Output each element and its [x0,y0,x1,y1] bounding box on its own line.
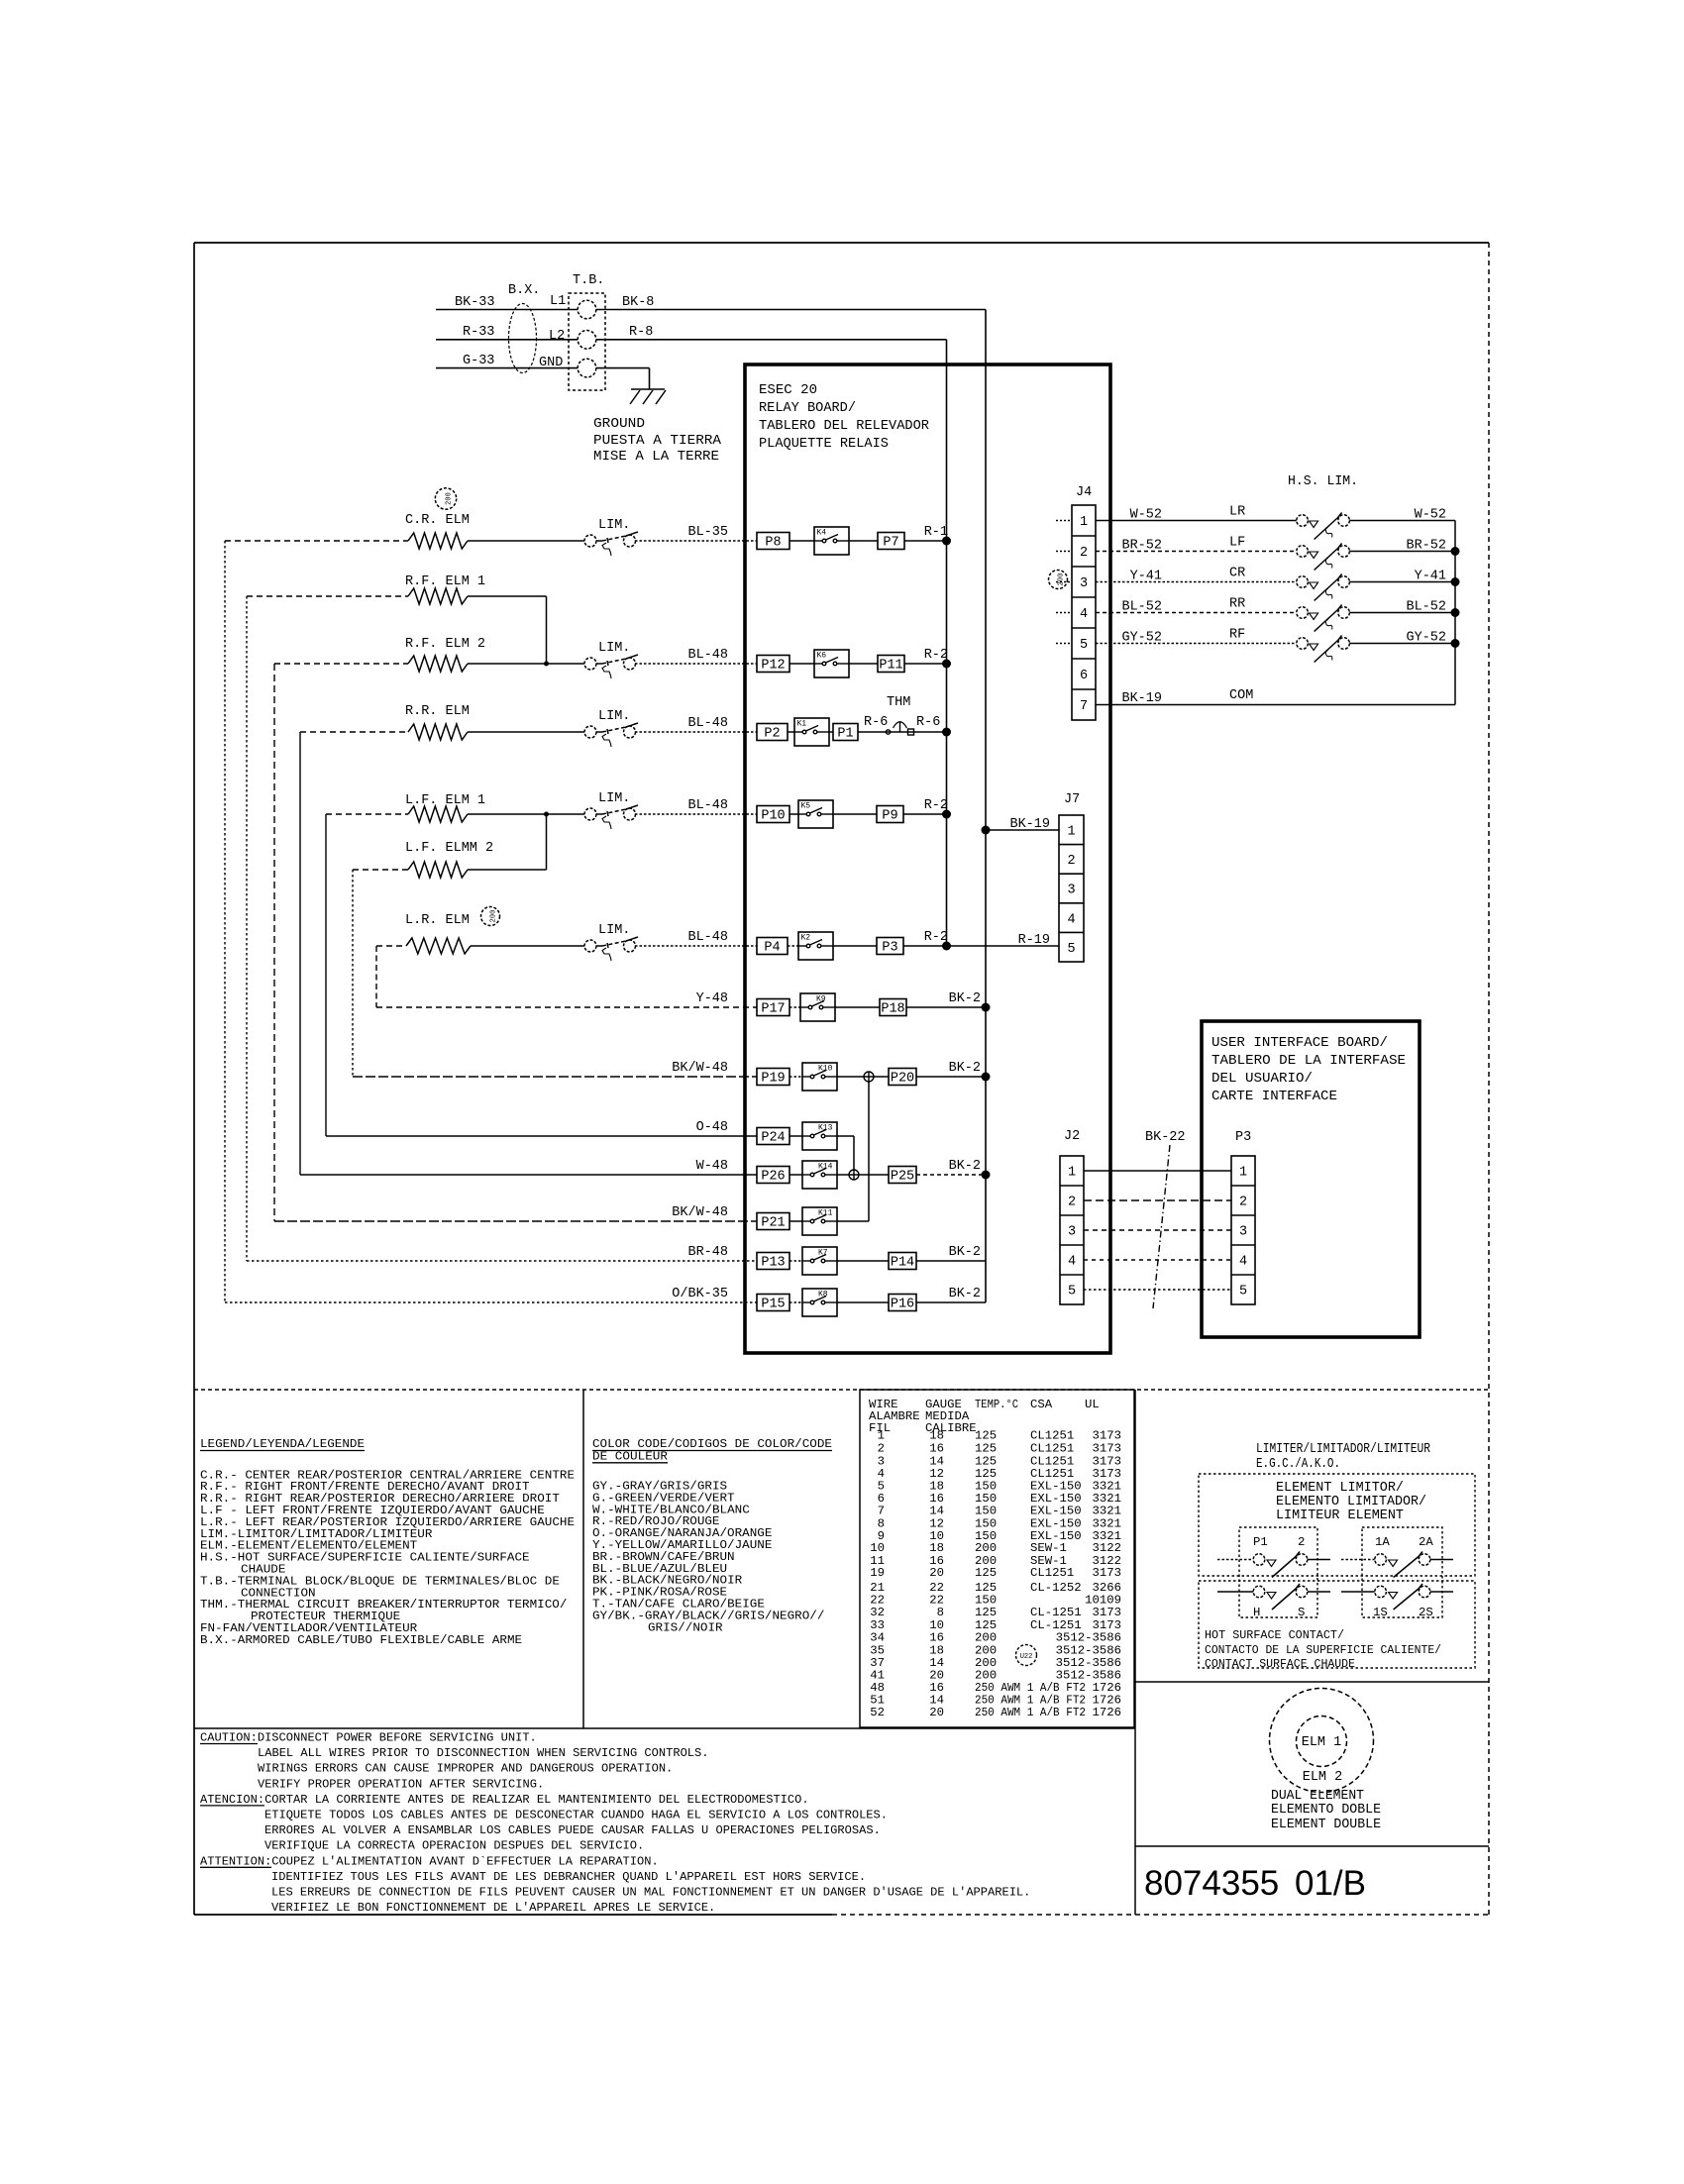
wire P3 to J7 pin5 R-19 [903,945,1059,947]
svg-text:5: 5 [1068,1285,1076,1300]
connector P14 [889,1253,916,1270]
svg-text:250 AWM 1 A/B FT2: 250 AWM 1 A/B FT2 [975,1706,1086,1719]
svg-text:1: 1 [1239,1166,1247,1181]
wire R-33 to L2 [436,339,578,341]
svg-text:BL-48: BL-48 [687,930,728,945]
svg-text:125: 125 [975,1454,997,1468]
svg-text:R.F. ELM 1: R.F. ELM 1 [405,574,485,589]
hot surface switch 1S-2S [1375,1586,1387,1598]
wire BK-33 to L1 [436,309,578,311]
relay K4 [814,527,849,555]
junction R-2 row3 [942,660,951,669]
svg-text:125: 125 [975,1429,997,1443]
stub J4 pin left [1056,551,1072,553]
wire G-33 to GND [436,367,578,369]
svg-text:3173: 3173 [1092,1606,1121,1619]
wire J4 pin5 to RF limit switch [1096,643,1297,645]
ground symbol [631,388,665,390]
wire riser C.R. elm to P15 row [224,541,226,1302]
svg-text:LIM.: LIM. [598,709,630,724]
relay K6 [814,650,849,677]
junction right bus Y-41 [1451,577,1460,586]
svg-text:3512-3586: 3512-3586 [1056,1631,1121,1645]
svg-text:K6: K6 [817,652,827,661]
junction BK-2 row11 [982,1171,991,1180]
svg-text:LR: LR [1229,505,1245,520]
svg-text:BR-48: BR-48 [687,1245,728,1260]
svg-text:BK-33: BK-33 [455,295,495,310]
limiter switch LIM row7 [584,940,596,952]
wire J2 pin5 to P3 pin5 [1084,1289,1231,1291]
wire BK/W-48 row9 [353,1076,757,1078]
border frame left [193,243,195,1915]
svg-text:PLAQUETTE RELAIS: PLAQUETTE RELAIS [759,437,889,452]
svg-text:1: 1 [1068,1166,1076,1181]
svg-text:P18: P18 [881,1002,904,1017]
wire P16 to BK bus [916,1301,986,1303]
terminal L1 [578,300,596,319]
wire BK-19 to J7 pin1 [986,829,1059,831]
wire K7-P14 [837,1260,889,1262]
wire switch RF to right bus [1349,643,1455,645]
svg-text:P21: P21 [761,1216,785,1231]
hot surface switch H-S [1253,1586,1265,1598]
wire R-8 from L2 to R bus [596,339,947,341]
connector P25 [889,1167,916,1184]
wire P10-K5 [789,813,798,815]
svg-text:LIM.: LIM. [598,641,630,656]
terminal L2 [578,331,596,350]
svg-text:CARTE INTERFACE: CARTE INTERFACE [1211,1090,1337,1104]
svg-text:LABEL ALL WIRES PRIOR TO DISCO: LABEL ALL WIRES PRIOR TO DISCONNECTION W… [258,1746,709,1760]
wire J2 pin2 to P3 pin2 [1084,1199,1231,1201]
svg-text:R-8: R-8 [629,325,653,340]
relay K10 [802,1063,837,1091]
wire K10 to junction [837,1076,889,1078]
wire J2 pin4 to P3 pin4 [1084,1259,1231,1261]
thermal breaker THM [886,730,890,734]
wire R.F. elm2 to LIM [468,663,584,665]
wire J4 pin1 to LR limit switch [1096,520,1297,522]
svg-text:RF: RF [1229,628,1245,643]
wire P14 to BK bus [916,1260,986,1262]
divider legend bottom / caution top [194,1727,1135,1729]
svg-text:TABLERO DE LA INTERFASE: TABLERO DE LA INTERFASE [1211,1054,1406,1069]
border frame top [194,242,1489,244]
svg-text:ELM 1: ELM 1 [1302,1735,1342,1750]
connector P17 [757,999,789,1016]
svg-text:IDENTIFIEZ TOUS LES FILS AVANT: IDENTIFIEZ TOUS LES FILS AVANT DE LES DE… [271,1870,866,1884]
relay K7 [802,1247,837,1275]
stub J4 pin left [1056,520,1072,522]
wire R.F. elm2 left [274,663,408,665]
svg-text:1: 1 [878,1429,885,1443]
junction BK-19 bus [982,826,991,835]
svg-text:P3: P3 [1235,1130,1251,1145]
wire P12-K6 [789,663,814,665]
svg-text:ELEMENTO LIMITADOR/: ELEMENTO LIMITADOR/ [1276,1495,1426,1509]
connector P9 [877,806,903,823]
svg-text:4: 4 [1239,1255,1247,1270]
part number box top [1135,1845,1489,1847]
connector P13 [757,1253,789,1270]
svg-text:LIM.: LIM. [598,518,630,533]
svg-text:LIM.: LIM. [598,923,630,938]
wire J4 pin3 to CR limit switch [1096,581,1297,583]
svg-text:VERIFIEZ LE BON FONCTIONNEMENT: VERIFIEZ LE BON FONCTIONNEMENT DE L'APPA… [271,1901,715,1915]
svg-text:K10: K10 [818,1065,833,1074]
svg-text:16: 16 [929,1441,944,1455]
hot surface limit switch CR [1297,576,1309,588]
svg-text:BK-8: BK-8 [622,295,654,310]
svg-text:GY-52: GY-52 [1121,631,1162,646]
underline ATTENTION [200,1866,271,1868]
svg-text:14: 14 [929,1504,944,1517]
limiter switch LIM row1 [584,535,596,547]
relay K5 [798,800,833,828]
wire J4 pin2 to LF limit switch [1096,551,1297,553]
svg-text:GROUND: GROUND [593,417,645,432]
svg-text:P4: P4 [764,941,780,956]
wire K2-P3 [833,945,877,947]
wire L.F. elmm2 right to row5 [468,869,547,871]
svg-text:10: 10 [870,1541,885,1555]
connector J2 [1060,1156,1084,1304]
wire O-48 row10 [326,1135,757,1137]
svg-text:150: 150 [975,1504,997,1517]
svg-text:BK-2: BK-2 [949,1245,981,1260]
wire O/BK-35 row14 [225,1301,757,1303]
underline CAUTION [200,1743,258,1745]
svg-text:P17: P17 [761,1002,785,1017]
svg-text:Y-48: Y-48 [696,991,728,1006]
heater element C.R. ELM [408,533,468,549]
svg-text:W-48: W-48 [696,1159,728,1174]
connector P21 [757,1213,789,1230]
svg-text:LIMITEUR ELEMENT: LIMITEUR ELEMENT [1276,1508,1404,1523]
wire K14 to junction [837,1174,889,1176]
connector P8 [757,533,789,550]
wire P15-K8 [789,1301,802,1303]
svg-text:ETIQUETE TODOS LOS CABLES ANTE: ETIQUETE TODOS LOS CABLES ANTES DE DESCO… [264,1809,888,1822]
junction elmm2 [544,812,549,817]
svg-text:3: 3 [1239,1225,1247,1240]
cable marker BK-22 diagonal [1153,1145,1170,1308]
wire riser L.F. elmm2 to P19 row [352,870,354,1077]
limiter device box left [1239,1527,1317,1617]
svg-text:WIRINGS ERRORS CAN CAUSE IMPRO: WIRINGS ERRORS CAN CAUSE IMPROPER AND DA… [258,1762,673,1776]
svg-text:TABLERO DEL RELEVADOR: TABLERO DEL RELEVADOR [759,419,929,434]
limiter switch LIM row3 [584,658,596,670]
svg-text:CL1251: CL1251 [1030,1454,1074,1468]
heater element R.F. ELM 1 [408,588,468,604]
svg-text:1726: 1726 [1092,1706,1121,1719]
svg-text:K1: K1 [797,720,807,729]
wire BK-8 from L1 to BK bus [596,309,986,311]
svg-text:200: 200 [1057,573,1065,586]
connector J4 [1072,505,1096,720]
svg-text:K5: K5 [801,802,811,811]
svg-text:BK-2: BK-2 [949,991,981,1006]
connector P19 [757,1069,789,1086]
connector P24 [757,1128,789,1145]
wire Y-48 row [376,1006,757,1008]
stub J4 pin left [1056,581,1072,583]
svg-text:CL-1251: CL-1251 [1030,1606,1082,1619]
svg-text:CONTACTO DE LA SUPERFICIE CALI: CONTACTO DE LA SUPERFICIE CALIENTE/ [1205,1643,1441,1657]
svg-text:20: 20 [929,1566,944,1580]
connector P4 [757,938,788,955]
wire riser L.F. elm1 to P24 row [325,814,327,1136]
svg-text:200: 200 [975,1631,997,1645]
svg-text:LES ERREURS DE CONNECTION DE F: LES ERREURS DE CONNECTION DE FILS PEUVEN… [271,1886,1030,1900]
connector P1 [833,724,858,741]
svg-text:VERIFIQUE LA CORRECTA OPERACIO: VERIFIQUE LA CORRECTA OPERACION DESPUES … [264,1839,644,1853]
wire switch LF to right bus [1349,551,1455,553]
svg-text:8074355: 8074355 [1144,1864,1279,1903]
wire P19-K10 [789,1076,802,1078]
divider legend/color code [582,1390,584,1728]
wire R.R. elm to LIM [468,731,584,733]
limiter device box right [1362,1527,1442,1617]
heater element R.F. ELM 2 [408,656,468,672]
svg-text:P11: P11 [879,659,902,674]
svg-text:CSA: CSA [1030,1398,1053,1411]
divider above legend (dashed) [194,1389,1489,1391]
connector P16 [889,1295,916,1311]
svg-text:01/B: 01/B [1295,1864,1366,1903]
svg-text:HOT SURFACE CONTACT/: HOT SURFACE CONTACT/ [1205,1628,1344,1642]
svg-text:LEGEND/LEYENDA/LEGENDE: LEGEND/LEYENDA/LEGENDE [200,1437,365,1451]
svg-text:R-33: R-33 [463,325,494,340]
wire table box [860,1390,1134,1727]
wire LIM to P10 [635,813,757,815]
stub J4 pin left [1056,643,1072,645]
terminal block T.B. [569,293,605,390]
svg-text:S: S [1298,1606,1305,1619]
connector J7 [1059,815,1084,962]
wire LIM to P12 [635,663,757,665]
wire switch RR to right bus [1349,612,1455,614]
svg-text:P14: P14 [891,1256,914,1271]
svg-text:CL1251: CL1251 [1030,1566,1074,1580]
wire LIM to P4 [635,945,757,947]
svg-text:LF: LF [1229,536,1245,551]
wire GND to ground symbol [596,367,650,369]
wire P7 to R bus [904,540,947,542]
svg-text:P8: P8 [765,536,781,551]
svg-text:CL1251: CL1251 [1030,1441,1074,1455]
wire K11 up to row9 junction [837,1220,869,1222]
underline ATENCION [200,1805,264,1807]
relay K1 [794,718,829,746]
wire J4 pin4 to RR limit switch [1096,612,1297,614]
svg-text:DUAL ELEMENT: DUAL ELEMENT [1271,1789,1364,1804]
heater element L.F. ELMM 2 [408,862,468,878]
wire K4-P7 [849,540,878,542]
svg-text:USER INTERFACE BOARD/: USER INTERFACE BOARD/ [1211,1036,1388,1051]
svg-text:CAUTION:DISCONNECT POWER BEFOR: CAUTION:DISCONNECT POWER BEFORE SERVICIN… [200,1731,537,1745]
wire P8-K4 [789,540,814,542]
wire P20 to BK bus [916,1076,986,1078]
wire P2-K1 [788,731,794,733]
connector P26 [757,1167,789,1184]
svg-text:BK-19: BK-19 [1009,817,1050,832]
svg-text:CR: CR [1229,567,1245,581]
wire LIM to P2 [635,731,757,733]
svg-text:B.X.-ARMORED CABLE/TUBO FLEXIB: B.X.-ARMORED CABLE/TUBO FLEXIBLE/CABLE A… [200,1633,522,1647]
svg-text:GY-52: GY-52 [1406,631,1446,646]
wire C.R. elm left [225,540,408,542]
svg-text:52: 52 [870,1706,885,1719]
relay K11 [802,1207,837,1235]
svg-text:6: 6 [1080,669,1088,683]
svg-text:BK-22: BK-22 [1145,1130,1186,1145]
svg-text:1A: 1A [1375,1535,1390,1549]
svg-text:19: 19 [870,1566,885,1580]
svg-text:W-52: W-52 [1415,508,1446,523]
wire riser R.F. elm1 to P13 row [246,596,248,1261]
svg-text:ESEC 20: ESEC 20 [759,383,817,398]
element limitor dashed box [1199,1474,1475,1576]
svg-text:L.F. ELMM 2: L.F. ELMM 2 [405,841,493,856]
svg-text:18: 18 [929,1541,944,1555]
svg-text:K2: K2 [801,934,811,943]
svg-text:P3: P3 [882,941,897,956]
note circle 200 beside L.R. ELM [481,907,500,926]
svg-text:L2: L2 [549,329,565,344]
svg-text:PUESTA A TIERRA: PUESTA A TIERRA [593,434,722,449]
wire L.F. elm1 left [326,813,408,815]
svg-text:14: 14 [929,1454,944,1468]
junction R-6 [942,728,951,737]
heater element L.R. ELM [406,938,471,954]
svg-text:C.R. ELM: C.R. ELM [405,513,470,528]
svg-text:BL-52: BL-52 [1406,600,1446,615]
border frame right (dashed) [1488,243,1490,1915]
svg-text:DE COULEUR: DE COULEUR [592,1449,669,1463]
svg-text:1: 1 [1080,515,1088,530]
svg-text:2: 2 [878,1441,885,1455]
wire R.F. elm1 left [247,595,408,597]
svg-text:3321: 3321 [1092,1504,1121,1517]
svg-text:G-33: G-33 [463,354,494,368]
relay K9 [800,993,835,1021]
svg-text:5: 5 [1067,942,1075,957]
svg-text:J2: J2 [1064,1129,1080,1144]
svg-text:5: 5 [1080,638,1088,653]
svg-text:2A: 2A [1419,1535,1433,1549]
armored cable B.X. ellipse [509,304,537,373]
wire R bus vertical [946,340,948,946]
svg-text:THM: THM [887,695,910,710]
svg-text:K14: K14 [818,1163,833,1172]
hot surface limit switch RF [1297,638,1309,650]
wire P21-K11 [789,1220,802,1222]
junction BK-2 row8 [982,1003,991,1012]
hot surface limit switch LR [1297,515,1309,527]
wire P18 to BK bus [906,1006,986,1008]
svg-text:7: 7 [878,1504,885,1517]
dual element outer circle [1270,1689,1374,1793]
connector P7 [878,533,904,550]
svg-text:2S: 2S [1419,1606,1433,1619]
terminal GND [578,359,596,377]
ESEC 20 relay board outline [745,364,1110,1353]
svg-text:BL-48: BL-48 [687,798,728,813]
svg-text:CL1251: CL1251 [1030,1429,1074,1443]
svg-text:U22: U22 [1020,1653,1033,1661]
svg-text:ATTENTION:COUPEZ L'ALIMENTATIO: ATTENTION:COUPEZ L'ALIMENTATION AVANT D`… [200,1854,659,1868]
svg-text:BL-35: BL-35 [687,525,728,540]
svg-text:P15: P15 [761,1298,785,1312]
svg-text:GRIS//NOIR: GRIS//NOIR [648,1620,723,1634]
svg-text:ERRORES AL VOLVER A ENSAMBLAR: ERRORES AL VOLVER A ENSAMBLAR LOS CABLES… [264,1823,881,1837]
relay K2 [798,932,833,960]
svg-text:125: 125 [975,1441,997,1455]
svg-text:2: 2 [1239,1196,1247,1210]
junction BK-2 row9 [982,1073,991,1082]
svg-text:P20: P20 [891,1072,914,1087]
svg-text:3173: 3173 [1092,1429,1121,1443]
svg-text:3: 3 [1080,576,1088,591]
svg-text:P9: P9 [882,809,897,824]
connector P3 UI [1231,1156,1255,1304]
wire P11 to R bus [904,663,947,665]
svg-text:ELEMENTO DOBLE: ELEMENTO DOBLE [1271,1803,1381,1818]
svg-text:P24: P24 [761,1131,785,1146]
svg-text:P12: P12 [761,659,785,674]
svg-text:DEL USUARIO/: DEL USUARIO/ [1211,1072,1313,1087]
wire K13 down to row11 [837,1135,854,1137]
svg-text:125: 125 [975,1606,997,1619]
connector P12 [757,656,789,673]
svg-text:2: 2 [1080,546,1088,561]
wire BK/W-48 row12 [274,1220,757,1222]
connector P20 [889,1069,916,1086]
svg-text:BK-2: BK-2 [949,1061,981,1076]
svg-text:7: 7 [1080,699,1088,714]
svg-text:R-6: R-6 [864,715,888,730]
crossover junction row11 [849,1170,859,1180]
wire K5-P9 [833,813,877,815]
svg-text:P1: P1 [837,727,853,742]
stub J4 pin left [1056,612,1072,614]
crossover junction row9 [864,1072,874,1082]
svg-text:MISE A LA TERRE: MISE A LA TERRE [593,450,719,465]
svg-text:8: 8 [937,1606,944,1619]
svg-text:BR-52: BR-52 [1121,539,1162,554]
svg-text:34: 34 [870,1631,885,1645]
svg-text:20: 20 [929,1706,944,1719]
svg-text:125: 125 [975,1566,997,1580]
junction R-2 row7 [942,942,951,951]
svg-text:3173: 3173 [1092,1566,1121,1580]
wire riser R.F. elm2 to P21 row [273,664,275,1221]
wire COM to J4 pin7 [1096,704,1455,706]
svg-text:J7: J7 [1064,792,1080,807]
wire BK bus vertical [985,310,987,1303]
svg-text:J4: J4 [1076,485,1092,500]
junction right bus BL-52 [1451,608,1460,617]
svg-text:B.X.: B.X. [508,283,540,298]
svg-text:L.R. ELM: L.R. ELM [405,913,470,928]
element limit switch P1-2 [1253,1554,1265,1566]
svg-text:16: 16 [929,1631,944,1645]
svg-text:H.S. LIM.: H.S. LIM. [1288,474,1358,489]
svg-text:E.G.C./A.K.O.: E.G.C./A.K.O. [1256,1457,1340,1472]
user interface board outline [1202,1021,1420,1337]
